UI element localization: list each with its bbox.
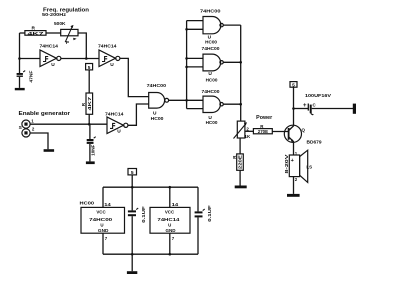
wire pot wiper to R3: [245, 130, 254, 132]
potentiometer P1 500K: [54, 21, 78, 46]
nand gate U4 74HC00: [147, 83, 169, 121]
svg-text:7: 7: [172, 236, 175, 241]
svg-text:U: U: [51, 62, 55, 68]
svg-text:100UF16V: 100UF16V: [305, 93, 332, 99]
wire stub gate3 in B: [187, 108, 203, 110]
svg-text:HC00: HC00: [80, 201, 95, 207]
wire stub gate2 in A: [187, 57, 203, 59]
wire pin 14 (U left): [102, 187, 104, 207]
wire input bus vertical: [186, 21, 188, 109]
svg-text:1: 1: [31, 118, 34, 123]
ground (S1): [44, 149, 55, 152]
svg-text:C: C: [313, 102, 317, 107]
ground (rails): [127, 271, 137, 274]
ground (C2): [86, 161, 95, 164]
schmitt inverter U1C 74HC14 (enable): [105, 111, 128, 134]
svg-text:74HC00: 74HC00: [147, 83, 167, 89]
wire U3 out to U4 lower input: [128, 104, 149, 125]
svg-text:2: 2: [246, 126, 249, 131]
node: [239, 103, 242, 106]
schmitt inverter U1A 74HC14 (oscillator): [40, 44, 61, 68]
svg-text:HC00: HC00: [206, 78, 218, 83]
node bus/U4out: [185, 99, 188, 102]
wire U4 out to bus: [169, 99, 203, 101]
wire U7 out: [223, 103, 240, 105]
svg-text:HC00: HC00: [206, 120, 218, 125]
svg-text:74HC00: 74HC00: [202, 89, 220, 95]
svg-text:2: 2: [32, 127, 35, 132]
svg-text:Power: Power: [256, 115, 272, 121]
wire output bus vertical: [240, 25, 242, 121]
power +5V flag (pullup): [86, 64, 93, 94]
wire R4 to ground: [239, 170, 241, 185]
node: [169, 186, 172, 189]
wire U2 out to U4 input: [120, 58, 149, 96]
node: [185, 66, 188, 69]
svg-text:14: 14: [104, 202, 111, 207]
node: [131, 253, 134, 256]
transistor Q1 BD679: [284, 109, 322, 156]
svg-text:GND: GND: [98, 228, 109, 233]
node inverter input: [18, 57, 21, 60]
svg-text:Q: Q: [302, 127, 306, 132]
node: [185, 28, 188, 31]
svg-text:14: 14: [172, 202, 179, 207]
svg-text:1K: 1K: [245, 134, 251, 139]
ground (R4): [235, 186, 247, 189]
node collector/cap: [292, 107, 295, 110]
wire stub gate1 in A: [187, 20, 203, 22]
node enable/pullup: [88, 123, 91, 126]
wire U1 out to U2 in: [61, 58, 99, 60]
wire R3 to base: [272, 131, 288, 133]
node feedback: [85, 57, 88, 60]
svg-text:74HC00: 74HC00: [200, 8, 221, 14]
wire: [78, 33, 87, 59]
svg-text:R: R: [81, 102, 86, 106]
ground (C1): [15, 88, 25, 90]
svg-text:500K: 500K: [54, 21, 66, 27]
svg-text:BD679: BD679: [307, 139, 322, 145]
wire pin 7 (U left): [102, 233, 104, 254]
resistor R4 220E: [232, 154, 243, 170]
wire VCC rail: [103, 186, 198, 188]
IC power block 74HC00: [80, 201, 125, 234]
capacitor C2 10NF: [87, 124, 96, 161]
wire stub gate1 in B: [187, 28, 203, 30]
text Freq regulation: [42, 7, 89, 18]
svg-text:LS: LS: [306, 164, 312, 169]
nand gate U5 74HC00: [200, 8, 223, 44]
capacitor C1 47NF: [17, 70, 34, 88]
wire S pin2 to ground: [30, 133, 48, 149]
svg-text:0.1UF: 0.1UF: [141, 206, 146, 223]
node: [169, 253, 172, 256]
svg-text:74HC14: 74HC14: [98, 44, 117, 50]
resistor R1 4K7: [25, 25, 46, 37]
svg-text:4K7: 4K7: [28, 31, 45, 37]
node: [239, 61, 242, 64]
wire U5 out: [223, 24, 240, 26]
svg-text:U: U: [117, 129, 121, 135]
svg-text:U: U: [110, 62, 114, 68]
wire pot bottom to R4: [239, 138, 241, 154]
wire input stub: [20, 58, 41, 60]
power +5V flag (collector): [290, 82, 297, 109]
svg-text:74HC14: 74HC14: [105, 111, 124, 117]
wire stub gate2 in B: [187, 66, 203, 68]
wire pin 14 (U right): [169, 187, 171, 207]
resistor R2 4K7 pullup: [81, 93, 93, 124]
wire U6 out: [223, 61, 240, 63]
svg-text:U: U: [168, 222, 171, 227]
IC power block 74HC14: [150, 207, 190, 233]
svg-text:8-20V: 8-20V: [284, 154, 289, 173]
svg-text:P: P: [66, 40, 70, 46]
terminal bar (supply): [353, 104, 356, 114]
svg-text:GND: GND: [166, 228, 176, 233]
loudspeaker LS1: [284, 150, 312, 194]
capacitor C5 0.1UF: [195, 187, 212, 254]
svg-text:VCC: VCC: [165, 209, 175, 214]
wire left vertical: [19, 33, 21, 73]
svg-text:+: +: [291, 158, 294, 164]
power +5V flag (rails): [128, 169, 137, 211]
svg-text:HC00: HC00: [205, 40, 217, 45]
svg-text:10NF: 10NF: [90, 144, 95, 155]
resistor R3 270E: [253, 124, 272, 134]
svg-text:47NF: 47NF: [29, 70, 34, 82]
schmitt inverter U1B 74HC14 (oscillator): [98, 44, 120, 68]
svg-text:Enable generator: Enable generator: [19, 111, 71, 117]
wire enable line: [30, 123, 107, 125]
svg-text:HC00: HC00: [151, 116, 164, 121]
connector S1: [19, 118, 35, 137]
svg-text:50-200Hz: 50-200Hz: [42, 12, 67, 18]
svg-text:U: U: [208, 71, 212, 77]
nand gate U6 74HC00: [202, 46, 224, 82]
svg-text:VCC: VCC: [96, 209, 106, 214]
svg-text:74HC00: 74HC00: [202, 46, 220, 52]
svg-text:74HC14: 74HC14: [40, 44, 59, 50]
nand gate U7 74HC00: [202, 89, 224, 125]
wire GND rail: [103, 253, 198, 255]
ground (LS1): [287, 194, 300, 197]
svg-text:U: U: [100, 222, 103, 227]
wire loop top: [20, 32, 25, 34]
node: [131, 186, 134, 189]
svg-text:270E: 270E: [258, 129, 268, 134]
node: [185, 57, 188, 60]
wire: [46, 32, 61, 34]
svg-text:2: 2: [295, 177, 298, 182]
wire pin 7 (U right): [169, 233, 171, 254]
svg-text:0.1UF: 0.1UF: [207, 205, 212, 222]
svg-text:4K7: 4K7: [87, 96, 92, 110]
svg-text:7: 7: [105, 236, 108, 241]
capacitor C4 0.1UF: [128, 206, 146, 271]
svg-text:220E: 220E: [238, 155, 243, 169]
potentiometer P2 1K: [234, 121, 251, 139]
capacitor C3 100UF16V: [294, 93, 354, 115]
